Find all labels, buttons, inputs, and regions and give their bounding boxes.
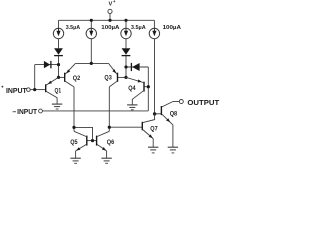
wire emitter bus of Q2/Q3 — [75, 62, 108, 64]
wire Q6 emitter to ground — [106, 151, 108, 158]
svg-text:+: + — [1, 85, 4, 90]
node emitter bus junction dot — [90, 62, 93, 65]
wire CS3 to diode D2 — [125, 39, 127, 48]
wire Q8 emitter to ground — [172, 125, 174, 147]
node V+ junction dot — [108, 19, 111, 22]
terminal -INPUT — [39, 109, 43, 113]
node CS2 rail junction dot — [90, 19, 93, 22]
transistor Q3 (PNP, diff pair right) — [109, 63, 118, 87]
wire Q5 emitter to ground — [75, 151, 77, 158]
wire V+ rail — [59, 19, 155, 21]
svg-text:Q4: Q4 — [128, 85, 136, 92]
transistor Q8 (NPN, output) — [161, 102, 173, 125]
wire Q7 base lead — [109, 126, 142, 128]
svg-text:Q7: Q7 — [150, 125, 158, 132]
ground under Q6 — [101, 158, 111, 163]
diode D4 (horizontal, cathode left toward node C) — [131, 63, 139, 71]
transistor Q1 (PNP, base from +INPUT) — [46, 77, 59, 104]
wire +INPUT lead — [30, 89, 46, 91]
transistor Q4 (PNP, base from -INPUT) — [126, 77, 144, 105]
wire Q8 base lead — [155, 113, 162, 115]
wire CS2 top — [90, 20, 92, 28]
svg-text:+: + — [113, 0, 116, 4]
wire -INPUT lead — [42, 110, 148, 112]
ground under Q1 — [52, 104, 62, 109]
wire +input vertical to D3 — [34, 65, 36, 90]
current source I2 100uA — [86, 28, 96, 38]
svg-text:Q6: Q6 — [107, 139, 115, 146]
wire Q5/Q6 base tie — [87, 140, 97, 142]
transistor Q5 (NPN, mirror, diode connected) — [74, 131, 87, 151]
wire CS2 to emitter bus — [90, 39, 92, 63]
wire diode D3 horizontal (+input clamp) — [35, 64, 59, 66]
svg-text:Q3: Q3 — [104, 75, 112, 82]
svg-text:Q2: Q2 — [73, 75, 81, 82]
ground under Q8 — [168, 147, 178, 153]
node Q2 collector / mirror tie junction dot — [72, 126, 75, 129]
node B: Q1 emitter / Q2 base junction dot — [57, 76, 60, 79]
current source I4 100uA — [149, 28, 159, 38]
svg-text:Q5: Q5 — [70, 139, 78, 146]
svg-text:3.5µA: 3.5µA — [66, 25, 81, 31]
svg-text:3.5µA: 3.5µA — [131, 25, 146, 31]
diode D2 (under I3, cathode down) — [122, 48, 131, 55]
wire CS1 to diode D1 — [58, 39, 60, 48]
wire CS3 top — [125, 20, 127, 28]
transistor Q7 (NPN, driver) — [142, 114, 154, 139]
wire CS1 top — [58, 20, 60, 28]
wire Q4 base lead — [144, 86, 148, 88]
transistor Q6 (NPN, mirror output) — [97, 131, 110, 151]
svg-text:INPUT: INPUT — [17, 109, 38, 116]
terminal +INPUT — [27, 88, 31, 92]
wire Q2 collector vertical — [73, 87, 75, 131]
wire current mirror tie (Q5 collector to bases) — [74, 127, 93, 140]
node Q7 collector / Q8 base junction dot — [153, 112, 156, 115]
wire Q2 base lead — [59, 76, 65, 78]
wire CS4 to Q8 base node — [154, 39, 156, 114]
wire -input vertical (D4 / Q4 base / -INPUT) — [147, 67, 149, 111]
svg-text:100µA: 100µA — [163, 25, 182, 31]
wire V+ terminal drop — [109, 14, 111, 20]
transistor Q2 (PNP, diff pair left) — [65, 63, 76, 87]
svg-text:100µA: 100µA — [101, 25, 120, 31]
ground under Q5 — [70, 158, 80, 163]
wire CS4 top — [153, 20, 155, 28]
svg-text:Q1: Q1 — [55, 87, 62, 94]
svg-text:OUTPUT: OUTPUT — [187, 100, 220, 107]
wire diode D4 horizontal (-input clamp) — [126, 66, 148, 68]
svg-text:V: V — [109, 2, 113, 8]
node CS3 rail junction dot — [124, 19, 127, 22]
current source I3 3.5uA — [121, 28, 131, 38]
node D4 junction dot — [124, 65, 127, 68]
terminal V+ — [108, 9, 112, 13]
node Q3 collector / Q7 base junction dot — [108, 126, 111, 129]
wire Q7 emitter to ground — [152, 139, 154, 148]
wire Q3 base lead — [118, 76, 126, 78]
current source I1 3.5uA — [53, 28, 63, 38]
svg-text:Q8: Q8 — [170, 110, 178, 117]
diode D3 (horizontal, anode at +input side, cathode right) — [44, 61, 51, 68]
svg-text:–: – — [12, 109, 16, 116]
wire D2 to node C (Q3 base / Q4 emitter node) — [125, 55, 127, 77]
node C: Q3 base / Q4 emitter junction dot — [124, 76, 127, 79]
svg-text:INPUT: INPUT — [6, 88, 28, 95]
diode D1 (under I1, cathode down) — [54, 48, 63, 55]
node Q4 base junction dot — [147, 85, 150, 88]
node A: D3 to bias chain junction dot — [57, 63, 60, 66]
wire Q3 collector vertical — [108, 87, 110, 131]
node +INPUT junction dot — [33, 88, 36, 91]
node Q5/Q6 base tie junction dot — [91, 139, 94, 142]
wire Q8 collector to OUTPUT — [173, 101, 180, 103]
wire D1 to node B (Q1 emitter / Q2 base node) — [58, 55, 60, 77]
ground under Q4 — [127, 105, 137, 110]
ground under Q7 — [148, 147, 158, 153]
terminal OUTPUT — [179, 100, 183, 104]
